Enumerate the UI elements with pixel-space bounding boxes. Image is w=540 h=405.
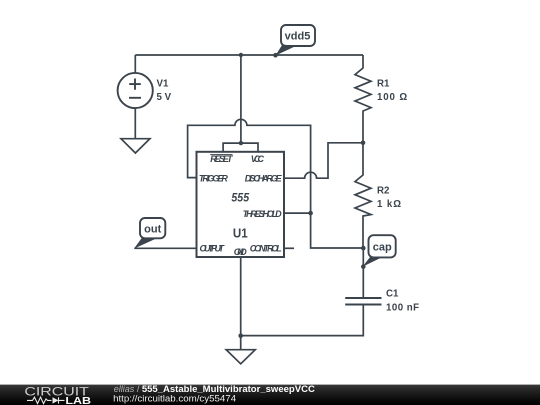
svg-text:TRIGGER: TRIGGER [199, 173, 229, 183]
IC pin labels [199, 154, 283, 257]
junction dot R1/R2/discharge [361, 141, 366, 146]
label C1 value [386, 289, 419, 314]
junction dot vdd5 tail [273, 53, 278, 58]
wire: discharge to R1-R2 junction (with hop) [284, 143, 363, 178]
wire: threshold pin [284, 212, 311, 214]
svg-text:THRESHOLD: THRESHOLD [243, 209, 283, 219]
svg-text:out: out [144, 223, 161, 235]
junction dot rail / VCC riser [239, 53, 243, 57]
label R2 value [377, 185, 401, 210]
wire: output [134, 247, 196, 249]
svg-text:1 kΩ: 1 kΩ [377, 199, 401, 210]
footer bar [0, 385, 540, 405]
voltage source V1 [118, 73, 153, 108]
wire: C1 bottom to ground rail [241, 305, 364, 336]
junction dot cap tail [361, 264, 366, 269]
logo squiggle [27, 397, 65, 403]
ground under V1 [121, 139, 150, 153]
svg-text:100 nF: 100 nF [386, 303, 419, 314]
svg-text:5 V: 5 V [157, 92, 172, 103]
IC U1 555 box [197, 152, 285, 257]
svg-text:cap: cap [373, 241, 392, 253]
capacitor C1 [345, 298, 381, 305]
label V1 value [157, 79, 172, 103]
label R1 value [377, 79, 407, 104]
svg-text:U1: U1 [233, 225, 248, 240]
wire: reset/vcc bracket [223, 143, 258, 152]
svg-text:V1: V1 [157, 79, 169, 90]
RESET pin overline [210, 154, 232, 156]
svg-text:LAB: LAB [65, 396, 91, 405]
svg-text:CONTROL: CONTROL [250, 244, 282, 254]
wire: control stub [284, 247, 294, 249]
svg-text:C1: C1 [386, 289, 399, 300]
svg-text:R1: R1 [377, 79, 390, 90]
svg-text:RESET: RESET [210, 154, 234, 164]
junction dot R2/cap column [361, 246, 366, 251]
svg-text:100 Ω: 100 Ω [377, 92, 407, 103]
resistor R2 [355, 143, 371, 248]
svg-text:GND: GND [234, 247, 248, 257]
junction dot bracket center [239, 141, 243, 145]
wire: VCC riser [240, 55, 242, 143]
net flag cap [362, 235, 395, 267]
svg-text:vdd5: vdd5 [285, 30, 311, 42]
net flag out [134, 218, 165, 249]
svg-text:OUTPUT: OUTPUT [200, 244, 226, 254]
resistor R1 [355, 55, 371, 143]
wire: GND pin down [240, 257, 242, 350]
wire: V1 bottom lead [134, 108, 136, 139]
junction dot threshold [308, 211, 313, 216]
svg-text:http://circuitlab.com/cy55474: http://circuitlab.com/cy55474 [113, 393, 236, 403]
svg-text:555: 555 [231, 193, 249, 205]
net flag vdd5 [276, 25, 316, 56]
svg-text:DISCHARGE: DISCHARGE [245, 173, 283, 183]
svg-text:R2: R2 [377, 185, 389, 196]
wire: trigger loop (with hop over riser) [188, 119, 364, 248]
wire: vdd rail [135, 54, 363, 56]
ground (main) [226, 350, 255, 364]
wire: cap top lead [362, 248, 364, 298]
svg-text:VCC: VCC [251, 154, 265, 164]
junction dot ground rail [238, 333, 243, 338]
wire: V1 top lead [134, 55, 136, 73]
